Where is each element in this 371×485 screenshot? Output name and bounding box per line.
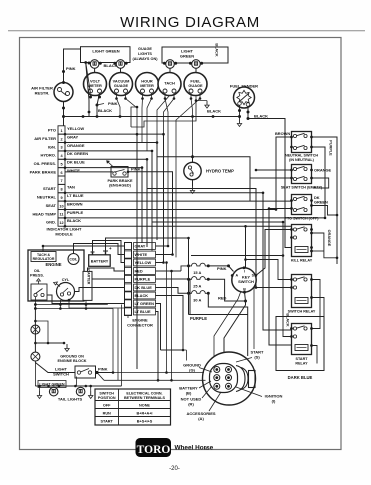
svg-text:IGN.: IGN. <box>48 144 56 149</box>
svg-text:PURPLE: PURPLE <box>190 316 207 321</box>
wire key switch S to relays <box>256 230 292 276</box>
svg-text:KILL RELAY: KILL RELAY <box>291 259 313 263</box>
wire engine grounds bus <box>35 300 205 386</box>
svg-text:10: 10 <box>59 204 63 208</box>
wire neutral switch right <box>312 137 338 264</box>
svg-text:BLACK: BLACK <box>207 109 221 114</box>
switch relay <box>288 275 316 314</box>
wire connector outputs right <box>156 245 191 382</box>
switch park brake (engaged) <box>106 160 133 187</box>
svg-text:8: 8 <box>60 188 62 192</box>
svg-text:DK GREEN: DK GREEN <box>67 151 88 156</box>
wire switch relay connections <box>255 280 324 329</box>
gauge lights right box (LIGHT GREEN) <box>162 47 228 63</box>
svg-text:WHITE: WHITE <box>135 252 148 257</box>
start relay <box>290 324 313 366</box>
switch PTO (off) <box>285 195 320 221</box>
svg-text:SEAT SWITCH (EMPTY): SEAT SWITCH (EMPTY) <box>281 186 323 190</box>
ground tail light left <box>37 385 41 399</box>
fuse F2 25A <box>187 277 210 289</box>
lamp DS1 gauge light <box>88 60 102 69</box>
wire engine to connector <box>35 238 188 308</box>
light switch <box>53 366 95 378</box>
headlight lamp lower <box>31 352 40 361</box>
fuse F3 30A <box>187 291 210 303</box>
svg-text:TAN: TAN <box>67 185 75 190</box>
svg-text:LT BLUE: LT BLUE <box>67 193 84 198</box>
gauge volt meter <box>84 73 107 96</box>
label GUAGE LIGHTS (ALWAYS ON) <box>133 47 159 61</box>
svg-text:GREEN: GREEN <box>180 54 194 59</box>
title WIRING DIAGRAM <box>8 14 365 31</box>
ground under fuel gauge <box>196 96 207 101</box>
svg-text:GRAY: GRAY <box>67 134 79 139</box>
switch seat (empty) <box>281 165 323 190</box>
switch air filter restriction <box>31 83 73 102</box>
svg-text:RESTR.: RESTR. <box>35 91 50 96</box>
svg-text:SWITCH: SWITCH <box>238 279 254 284</box>
svg-text:(ALWAYS ON): (ALWAYS ON) <box>133 57 159 61</box>
wire fuel sender grounds <box>237 105 291 247</box>
tach & regulator <box>31 252 56 262</box>
wire light switch to trunk <box>95 371 114 374</box>
key switch front <box>231 266 257 293</box>
svg-text:PRESS.: PRESS. <box>30 274 44 278</box>
svg-text:BROWN: BROWN <box>67 201 83 206</box>
wire key switch B down to connector <box>214 291 246 364</box>
key switch rear connector <box>203 352 256 405</box>
svg-text:2: 2 <box>60 137 62 141</box>
svg-text:(I): (I) <box>272 399 276 404</box>
gauge tach <box>158 73 181 96</box>
svg-text:(ENGAGED): (ENGAGED) <box>109 184 131 188</box>
coil <box>68 254 79 265</box>
lamp DS3 gauge light <box>163 60 177 69</box>
svg-text:PURPLE: PURPLE <box>67 210 84 215</box>
svg-text:GROUND ON: GROUND ON <box>60 355 84 359</box>
battery <box>89 246 112 266</box>
svg-text:B+R+A+I: B+R+A+I <box>137 411 153 415</box>
svg-text:BLACK: BLACK <box>254 114 268 119</box>
svg-text:RED: RED <box>218 296 227 301</box>
svg-text:BATTERY: BATTERY <box>91 260 109 264</box>
svg-text:DK BLUE: DK BLUE <box>135 285 153 290</box>
svg-text:GUAGE: GUAGE <box>114 83 129 88</box>
svg-text:OIL: OIL <box>34 269 41 273</box>
svg-text:LIGHTS: LIGHTS <box>138 52 152 56</box>
svg-text:ENGINE BLOCK: ENGINE BLOCK <box>57 359 86 363</box>
wire mid horizontals to right channel <box>147 157 283 288</box>
svg-text:NEUTRAL: NEUTRAL <box>37 195 57 200</box>
fuse F1 15A <box>187 263 210 275</box>
tail light lamp right <box>76 387 85 396</box>
svg-text:9: 9 <box>60 196 62 200</box>
svg-text:GRAY: GRAY <box>135 244 146 249</box>
svg-text:LIGHT GREEN: LIGHT GREEN <box>92 49 119 54</box>
svg-text:RED: RED <box>135 269 143 274</box>
svg-text:METER: METER <box>88 83 102 88</box>
wire park brake to white trunk <box>127 171 173 255</box>
starter <box>83 268 92 301</box>
svg-text:(B): (B) <box>186 391 192 396</box>
svg-text:START: START <box>101 419 114 423</box>
gauge fuel guage <box>184 73 207 96</box>
svg-text:ORANGE: ORANGE <box>327 230 331 247</box>
cylinder temp sender <box>54 278 75 301</box>
svg-text:30 A: 30 A <box>193 298 201 303</box>
svg-text:5: 5 <box>60 162 62 166</box>
svg-text:7: 7 <box>60 179 62 183</box>
wire key switch I feed <box>191 254 292 279</box>
wire bulb feeds <box>95 68 196 72</box>
wire air filter to light box <box>62 49 81 84</box>
switch hydro temp <box>184 162 234 179</box>
svg-text:(S): (S) <box>254 355 260 360</box>
wire black bus under gauges <box>64 108 240 118</box>
wire start relay coil right <box>312 346 318 364</box>
engine box <box>28 250 84 301</box>
wire fuse bus <box>187 237 190 315</box>
svg-text:(IN NEUTRAL): (IN NEUTRAL) <box>289 158 315 162</box>
svg-text:GUAGE: GUAGE <box>188 83 203 88</box>
svg-text:(R): (R) <box>188 402 194 407</box>
diagram border frame <box>20 38 342 450</box>
svg-text:Wheel Horse: Wheel Horse <box>175 444 214 451</box>
gauge lights left box (LIGHT GREEN / BLACK) <box>81 47 131 68</box>
svg-text:I: I <box>244 269 245 273</box>
engine connector strip <box>125 242 156 327</box>
svg-text:PINK: PINK <box>217 266 227 271</box>
fuel sender <box>230 84 258 109</box>
wire start label feed <box>254 288 256 350</box>
dark blue loop box <box>276 317 324 381</box>
headlight lamp upper <box>31 325 40 334</box>
svg-text:1: 1 <box>60 129 62 133</box>
wire hydro temp feed and ground <box>190 155 194 194</box>
wire module row outputs <box>64 133 325 228</box>
wire air filter down to module <box>62 102 65 126</box>
label GROUND (G) <box>183 363 212 373</box>
wire seat switch left <box>250 169 329 201</box>
svg-text:6: 6 <box>60 171 62 175</box>
svg-text:PTO SWITCH (OFF): PTO SWITCH (OFF) <box>285 217 320 221</box>
svg-text:PTO: PTO <box>48 128 56 133</box>
label BATTERY (B) <box>179 381 211 396</box>
wire fuse1 pink to key switch <box>208 264 233 271</box>
svg-text:HYDRO TEMP: HYDRO TEMP <box>206 169 234 174</box>
svg-text:ELECTRICAL CONN.: ELECTRICAL CONN. <box>126 392 162 396</box>
svg-text:PURPLE: PURPLE <box>329 140 333 156</box>
svg-text:START: START <box>43 186 57 191</box>
TORO logo <box>136 438 214 457</box>
wire pink gauge feeds <box>84 61 117 116</box>
svg-text:SEAT: SEAT <box>46 203 57 208</box>
svg-text:OFF: OFF <box>103 403 111 407</box>
svg-text:CONNECTOR: CONNECTOR <box>127 323 153 328</box>
svg-text:ORANGE: ORANGE <box>314 168 331 173</box>
svg-text:SWITCH RELAY: SWITCH RELAY <box>288 310 316 314</box>
ground on engine block <box>57 344 86 363</box>
svg-text:HEAD TEMP: HEAD TEMP <box>32 211 56 216</box>
svg-text:12: 12 <box>59 221 63 225</box>
svg-text:PINK: PINK <box>131 167 141 172</box>
svg-text:BROWN: BROWN <box>275 131 290 136</box>
svg-text:25 A: 25 A <box>193 284 201 289</box>
lamp DS4 gauge light <box>189 60 203 69</box>
svg-text:BLACK: BLACK <box>286 313 290 327</box>
svg-text:LT BLUE: LT BLUE <box>135 309 152 314</box>
label IGNITION (I) <box>236 387 282 404</box>
svg-text:AIR FILTER: AIR FILTER <box>34 136 56 141</box>
indicator light module connector block <box>30 126 89 237</box>
ignition switch table <box>95 389 171 425</box>
svg-text:LT GREEN: LT GREEN <box>135 301 155 306</box>
svg-text:DARK BLUE: DARK BLUE <box>288 375 313 380</box>
svg-text:SWITCH: SWITCH <box>53 371 69 376</box>
svg-text:BLACK: BLACK <box>215 43 219 57</box>
gauge hour meter <box>136 73 159 96</box>
svg-text:NONE: NONE <box>139 403 150 407</box>
svg-text:YELLOW: YELLOW <box>135 260 152 265</box>
wire tail light feed <box>35 363 121 388</box>
wire headlight harness <box>34 303 75 372</box>
svg-text:RELAY: RELAY <box>295 362 308 366</box>
svg-text:REGULATOR: REGULATOR <box>33 257 55 261</box>
svg-text:GREEN: GREEN <box>314 200 328 205</box>
svg-text:(G): (G) <box>189 368 195 373</box>
svg-text:PARK BRAKE: PARK BRAKE <box>30 169 57 174</box>
svg-text:3: 3 <box>60 146 62 150</box>
svg-text:PINK: PINK <box>66 66 76 71</box>
kill relay <box>290 225 313 263</box>
svg-text:TAIL LIGHTS: TAIL LIGHTS <box>58 397 83 402</box>
svg-text:NEUTRAL SWITCH: NEUTRAL SWITCH <box>285 154 318 158</box>
svg-text:ENGINE: ENGINE <box>45 262 61 267</box>
svg-text:SWITCH: SWITCH <box>99 392 114 396</box>
svg-text:BLACK: BLACK <box>135 293 149 298</box>
svg-text:PINK: PINK <box>98 367 108 372</box>
svg-text:START: START <box>295 357 308 361</box>
svg-text:PINK: PINK <box>108 101 118 106</box>
svg-text:GND.: GND. <box>46 220 56 225</box>
wire trunk verticals center <box>136 133 165 369</box>
svg-text:MODULE: MODULE <box>55 232 73 237</box>
label START (S) <box>236 350 264 363</box>
tail light lamp left <box>49 387 58 396</box>
label NOT USED (R) <box>181 386 212 407</box>
svg-text:11: 11 <box>59 213 63 217</box>
svg-text:A: A <box>235 274 238 278</box>
wire kill relay right <box>310 232 338 264</box>
svg-text:POSITION: POSITION <box>98 396 116 400</box>
svg-text:+: + <box>109 246 112 251</box>
svg-text:TACH: TACH <box>164 81 175 86</box>
wire start relay left <box>282 221 292 337</box>
wire fuse2 to red <box>208 279 247 302</box>
svg-text:COIL: COIL <box>70 258 78 262</box>
svg-text:YELLOW: YELLOW <box>67 126 84 131</box>
svg-text:GUAGE: GUAGE <box>138 47 152 51</box>
switch neutral (in neutral) <box>285 132 318 163</box>
lamp DS2 gauge light <box>113 60 127 69</box>
svg-text:®: ® <box>205 447 208 451</box>
wire light switch to tail feed <box>76 377 78 387</box>
svg-text:B+S+I+S: B+S+I+S <box>137 419 153 423</box>
svg-text:(A): (A) <box>198 416 204 421</box>
svg-text:TORO: TORO <box>137 444 171 456</box>
svg-text:RUN: RUN <box>103 411 111 415</box>
label ACCESSORIES (A) <box>186 392 221 421</box>
svg-text:BETWEEN TERMINALS: BETWEEN TERMINALS <box>124 396 166 400</box>
svg-text:OIL PRESS.: OIL PRESS. <box>34 161 56 166</box>
wire gauge terminal drops <box>115 93 209 257</box>
svg-text:HYDRO.: HYDRO. <box>40 153 56 158</box>
svg-text:METER: METER <box>140 83 154 88</box>
wire fuse3 purple <box>189 293 248 356</box>
ground tail light right <box>89 385 93 399</box>
gauge vacuum guage <box>110 73 133 96</box>
wire zigzag connectors under gauges <box>131 101 196 127</box>
svg-text:BLACK: BLACK <box>98 108 112 113</box>
svg-text:BLACK: BLACK <box>67 218 81 223</box>
svg-text:WIRING DIAGRAM: WIRING DIAGRAM <box>120 14 260 31</box>
svg-text:PURPLE: PURPLE <box>135 277 151 282</box>
svg-text:-20-: -20- <box>169 466 180 472</box>
svg-text:ORANGE: ORANGE <box>67 143 85 148</box>
oil pressure switch <box>30 269 47 300</box>
wire pto switch left <box>268 204 339 216</box>
svg-text:PARK BRAKE: PARK BRAKE <box>107 179 132 183</box>
svg-text:15 A: 15 A <box>193 270 201 275</box>
label LIGHT GREEN box <box>38 381 66 388</box>
wire right channel verticals <box>244 137 326 345</box>
svg-text:DK BLUE: DK BLUE <box>67 160 85 165</box>
